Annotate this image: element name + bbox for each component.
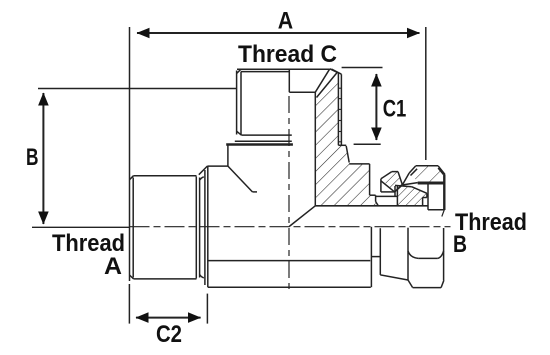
- shoulder step right: [338, 144, 346, 146]
- bore top line: [315, 205, 428, 207]
- nut lower band outline: [395, 185, 412, 186]
- nut lip diagonals: [402, 173, 409, 185]
- section cut at branch centerline: [288, 69, 290, 92]
- centerline vertical (branch axis): [288, 96, 290, 292]
- hatch region main body section: [315, 73, 375, 206]
- thread C section tick marks: [338, 88, 341, 142]
- hex chamfer to male A: [199, 166, 208, 175]
- body lower outside lines: [208, 260, 370, 262]
- svg-text:Thread C: Thread C: [238, 41, 337, 68]
- branch right outer: [330, 69, 339, 73]
- nut internal shoulder thick: [418, 182, 445, 185]
- male thread C left half: [236, 71, 238, 135]
- svg-text:B: B: [26, 144, 39, 171]
- DIMENSION C1: [342, 67, 383, 69]
- cone silhouette line upper: [376, 195, 398, 197]
- svg-text:A: A: [278, 7, 293, 34]
- body left face: [204, 170, 206, 285]
- male thread A end: [129, 27, 131, 281]
- nut inner vertical: [427, 185, 429, 210]
- hatch region nut lower band: [397, 186, 427, 205]
- svg-text:C2: C2: [156, 321, 182, 348]
- nut lower outside view: [379, 228, 381, 275]
- nut right face: [443, 174, 445, 210]
- DIMENSION C2: [128, 284, 130, 324]
- svg-text:C1: C1: [383, 96, 407, 123]
- sleeve: [380, 179, 382, 192]
- hatch region sleeve: [381, 172, 403, 192]
- centerline horizontal (run axis): [32, 226, 130, 228]
- countersink cone: [315, 69, 330, 92]
- hatch region nut top band: [409, 166, 445, 182]
- body stub right face: [369, 164, 371, 195]
- DIMENSION B: [42, 93, 44, 224]
- nut top: [416, 165, 439, 167]
- bore wall: [314, 92, 316, 206]
- hex boss left vertical: [227, 145, 229, 167]
- DIMENSION A: [137, 32, 420, 34]
- svg-text:B: B: [453, 231, 467, 258]
- thread C runout lines: [235, 140, 292, 142]
- thick shoulder under thread C: [226, 143, 293, 146]
- hex top line: [207, 165, 228, 167]
- drill cone V: [289, 206, 315, 227]
- svg-text:A: A: [104, 253, 122, 280]
- hex corner diagonal: [228, 166, 253, 192]
